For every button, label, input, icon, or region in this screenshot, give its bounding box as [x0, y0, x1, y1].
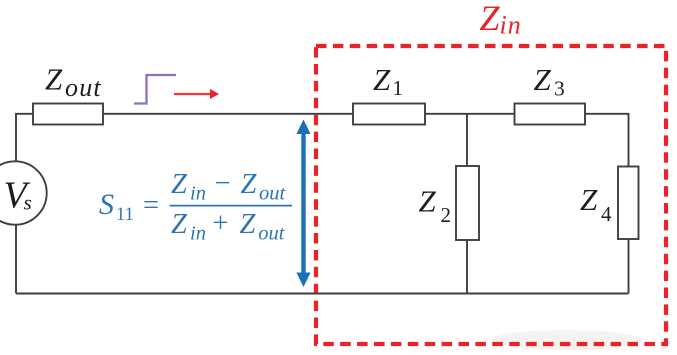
wire: left stub and vertical down to source top [16, 114, 33, 162]
svg-text:11: 11 [116, 205, 134, 225]
wire: top from Zout to Z1 [103, 113, 353, 115]
svg-text:3: 3 [554, 77, 565, 101]
wire: Z3 right to corner, down to Z4 top [585, 114, 629, 167]
step source symbol (purple) [134, 75, 176, 104]
Zin dashed boundary box [316, 46, 666, 344]
svg-text:−: − [215, 168, 231, 199]
watermark shadow [492, 330, 642, 350]
svg-text:1: 1 [393, 76, 404, 100]
svg-text:in: in [500, 11, 522, 40]
wire: Z2 branch from node [466, 114, 468, 166]
resistor Z1 [353, 104, 425, 125]
svg-text:4: 4 [601, 202, 612, 226]
wire: Z1 to Z3 [425, 113, 515, 115]
svg-text:Z: Z [373, 62, 391, 97]
svg-text:s: s [24, 191, 32, 215]
svg-text:+: + [213, 208, 229, 239]
reflection reference double arrow (blue) [301, 131, 305, 275]
svg-text:out: out [65, 73, 102, 102]
svg-text:Z: Z [419, 184, 437, 219]
wire: bottom rail [16, 293, 629, 295]
formula S11 = (Zin - Zout)/(Zin + Zout) (blue) [99, 168, 292, 245]
wire: Z4 bottom to rail [628, 239, 630, 294]
wire: Z2 bottom to rail [466, 240, 468, 294]
svg-text:out: out [259, 183, 287, 205]
svg-text:in: in [190, 183, 206, 205]
source Vs [0, 161, 47, 224]
svg-text:Z: Z [534, 62, 552, 97]
svg-text:in: in [190, 223, 206, 245]
svg-text:2: 2 [441, 203, 452, 227]
svg-text:Z: Z [171, 169, 188, 200]
resistor Z4 [618, 167, 639, 240]
resistor Z2 [456, 166, 479, 240]
svg-text:S: S [99, 188, 114, 221]
svg-text:Z: Z [45, 62, 63, 97]
svg-text:Z: Z [171, 209, 188, 240]
wire: source bottom to rail [15, 225, 17, 294]
svg-text:Z: Z [480, 0, 501, 38]
incident wave arrow (red) [174, 93, 211, 95]
svg-text:=: = [143, 190, 159, 221]
svg-text:Z: Z [240, 209, 257, 240]
resistor Z3 [515, 104, 586, 125]
svg-text:Z: Z [241, 169, 258, 200]
svg-text:Z: Z [580, 182, 598, 217]
svg-text:out: out [258, 223, 286, 245]
resistor Zout [33, 104, 103, 125]
